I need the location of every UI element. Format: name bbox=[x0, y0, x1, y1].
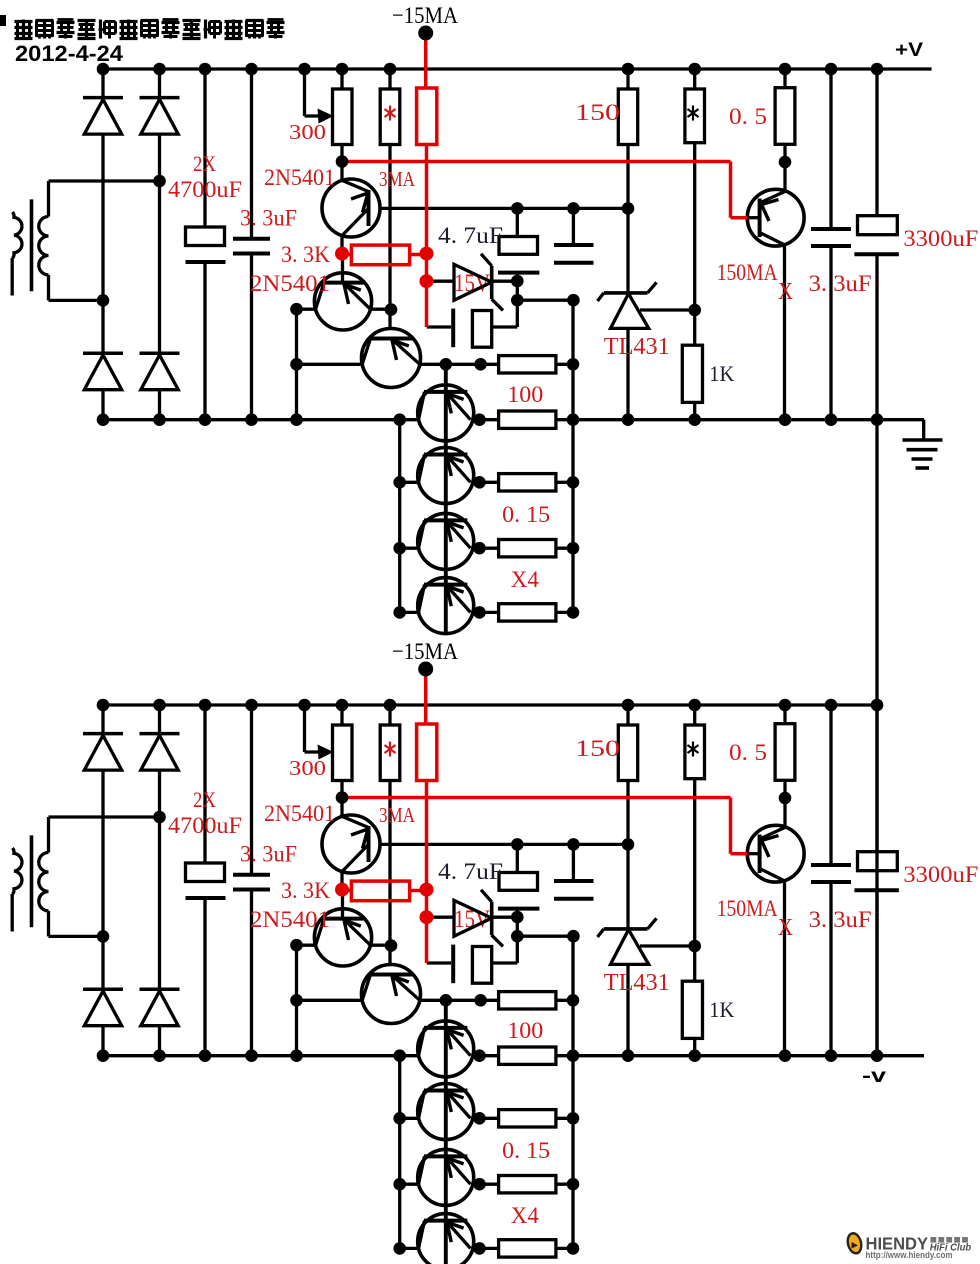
svg-text:-v: -v bbox=[862, 1066, 887, 1087]
svg-text:+V: +V bbox=[895, 40, 923, 61]
svg-text:http://www.hiendy.com: http://www.hiendy.com bbox=[866, 1250, 953, 1260]
svg-text:2012-4-24: 2012-4-24 bbox=[15, 41, 123, 66]
